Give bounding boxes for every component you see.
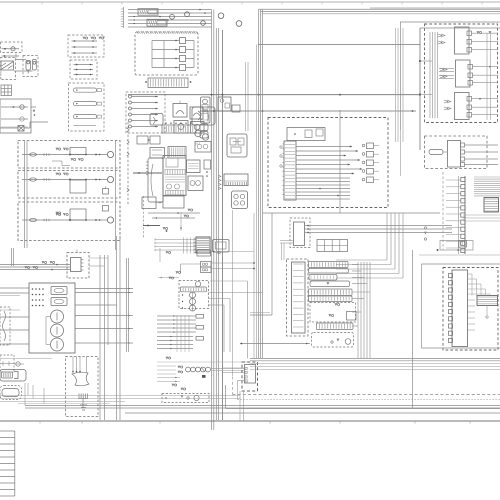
connector box left bundle	[429, 32, 431, 118]
wiper motor box	[192, 107, 215, 125]
cab unit box U1	[135, 32, 198, 75]
left vertical bus	[99, 255, 101, 420]
controller ic	[477, 296, 498, 306]
bundle labels	[166, 357, 168, 359]
connector CS3	[224, 174, 248, 186]
gauge wires left	[0, 287, 29, 289]
monitor pins	[32, 288, 34, 290]
harness outline verticals 2	[258, 9, 260, 358]
floor harness loom	[72, 372, 89, 386]
socket block	[232, 191, 248, 209]
thick feed arrow	[133, 172, 162, 174]
controller connector	[452, 270, 468, 347]
comb region dashed edge	[442, 172, 444, 250]
monitor panel box	[29, 283, 75, 353]
dashed boundary segment	[143, 196, 145, 238]
battery box with hatch	[0, 58, 16, 80]
aux relay 2	[188, 176, 203, 191]
switch panel box	[126, 92, 165, 133]
wire cross grid	[155, 239, 196, 241]
harness top lines	[259, 8, 500, 10]
harness line C	[258, 44, 420, 46]
pin header left	[148, 158, 163, 202]
socket wires right	[209, 292, 263, 294]
main bus line B	[200, 110, 416, 112]
fuse f1	[51, 287, 67, 295]
connector strip CS2	[162, 125, 196, 133]
harness corner line	[339, 110, 341, 213]
relay feed wires	[0, 264, 71, 266]
bundle rows upper	[157, 315, 196, 317]
center vertical wire	[232, 210, 234, 376]
main relay block	[163, 156, 186, 196]
region boundary dashed	[127, 122, 129, 205]
relay K3	[174, 121, 188, 134]
sheet border inner top line	[370, 7, 500, 9]
headlamp relay circuit RL3	[18, 202, 120, 241]
connector CN-B	[147, 19, 167, 26]
indicator lamps	[51, 310, 64, 323]
bottom bus bundle	[0, 358, 52, 360]
relay box small	[213, 240, 230, 253]
horn unit H1	[23, 56, 38, 77]
inner control box	[287, 128, 325, 141]
nested outline corners	[336, 259, 387, 261]
calibration table	[317, 240, 348, 252]
cap NE	[232, 105, 240, 112]
relay sub box	[310, 303, 356, 323]
controller box	[443, 268, 498, 351]
small label marks	[424, 227, 426, 229]
junction circles	[170, 14, 175, 19]
wire capsule	[0, 386, 22, 400]
connector CN-A	[138, 9, 158, 16]
relay K2	[190, 107, 203, 119]
headlamp relay circuit RL1	[18, 141, 120, 169]
connector strip left	[284, 141, 296, 200]
arrow wire box	[70, 60, 97, 79]
relay K4	[191, 122, 205, 134]
dashed bus lines	[233, 394, 500, 396]
engine box junctions	[419, 28, 421, 150]
washer pump	[0, 370, 26, 382]
main bus line A	[128, 94, 420, 96]
lamp unit box	[0, 99, 31, 133]
small caps	[200, 124, 208, 131]
engine connector box	[425, 24, 498, 123]
feed wire to relay box	[240, 343, 310, 345]
small motor box	[150, 114, 163, 126]
branch wires with arrows	[296, 146, 352, 148]
cab unit contacts	[180, 38, 186, 44]
connector dense vertical	[196, 237, 210, 253]
fuse bar row 6	[309, 296, 353, 302]
cab relay	[67, 253, 89, 279]
connector block CB1	[455, 27, 470, 54]
front harness box	[268, 118, 388, 208]
ladder left bus wires	[24, 141, 26, 248]
corner links	[225, 385, 227, 409]
relay K1	[173, 104, 187, 118]
fuse panel connector	[287, 259, 309, 336]
sensor feed box	[440, 241, 473, 251]
arrow wires	[148, 212, 200, 214]
sheet border top line	[0, 1, 500, 3]
zone ruler ticks	[123, 7, 125, 28]
contact pair	[201, 262, 212, 268]
solid harness outline	[263, 212, 440, 214]
thick branch arrow	[143, 225, 160, 227]
dense wire block	[474, 176, 500, 178]
wide label box	[162, 394, 209, 403]
monitor right wires	[75, 288, 133, 290]
ladder right bus wire	[115, 141, 117, 250]
relay bottom box	[312, 333, 354, 348]
harness outline verticals	[253, 213, 255, 359]
fuse link F0	[18, 126, 24, 132]
terminal comb strip	[464, 176, 466, 254]
fuse f2	[51, 298, 67, 306]
fuse bar row 2	[309, 269, 349, 274]
socket cluster	[179, 281, 209, 309]
fuse stack right wires	[357, 262, 359, 358]
lamp circles pair	[195, 130, 201, 136]
controller wires	[468, 273, 473, 275]
resistor pack box	[69, 83, 105, 131]
main vertical harness bundle	[211, 10, 213, 431]
switch S3	[168, 147, 186, 159]
lighter label	[176, 272, 178, 274]
wire to battery	[2, 55, 20, 57]
horn relay	[201, 97, 211, 123]
small parts right	[204, 160, 211, 169]
right vertical pair	[245, 62, 247, 131]
aux relay	[187, 160, 201, 173]
pin contacts right	[362, 144, 365, 147]
labels above sensor	[157, 377, 180, 379]
wiper unit box	[0, 355, 14, 372]
sheet bottom line	[0, 420, 500, 422]
level sensor box	[0, 307, 10, 345]
bundle rows lower	[157, 336, 193, 338]
ecu sub box	[290, 218, 310, 248]
connector strip CS1	[148, 78, 188, 88]
switch box S1	[1, 42, 23, 53]
connector block CB3	[455, 93, 470, 120]
lower wire bundle	[296, 177, 350, 179]
terminal table	[1, 85, 12, 96]
ignition feed wires	[128, 9, 212, 11]
relay box NE	[218, 97, 231, 111]
sensor unit box	[242, 362, 258, 391]
headlamp relay circuit RL2	[18, 171, 120, 199]
fuse bar row 3	[309, 275, 337, 281]
switch boxes pair	[142, 197, 156, 209]
diode block box	[68, 35, 104, 57]
switch S2	[150, 148, 165, 159]
alternator connector box	[425, 136, 488, 169]
fuse bar row 5	[309, 289, 353, 296]
fuse pair	[137, 136, 148, 144]
fuse bar row 4	[310, 281, 350, 287]
mid low bus	[25, 405, 500, 407]
connector block CB2	[456, 60, 471, 87]
fuse bar row 1	[309, 262, 349, 268]
ground comb	[78, 394, 80, 399]
fuse bar row 7	[317, 323, 354, 330]
right connector verticals	[486, 33, 488, 120]
legend table	[0, 430, 15, 432]
mid verticals group	[395, 28, 397, 142]
controller outer outline	[421, 264, 423, 348]
flasher unit	[227, 134, 247, 157]
floor harness box	[66, 357, 99, 417]
small box row	[197, 250, 211, 256]
